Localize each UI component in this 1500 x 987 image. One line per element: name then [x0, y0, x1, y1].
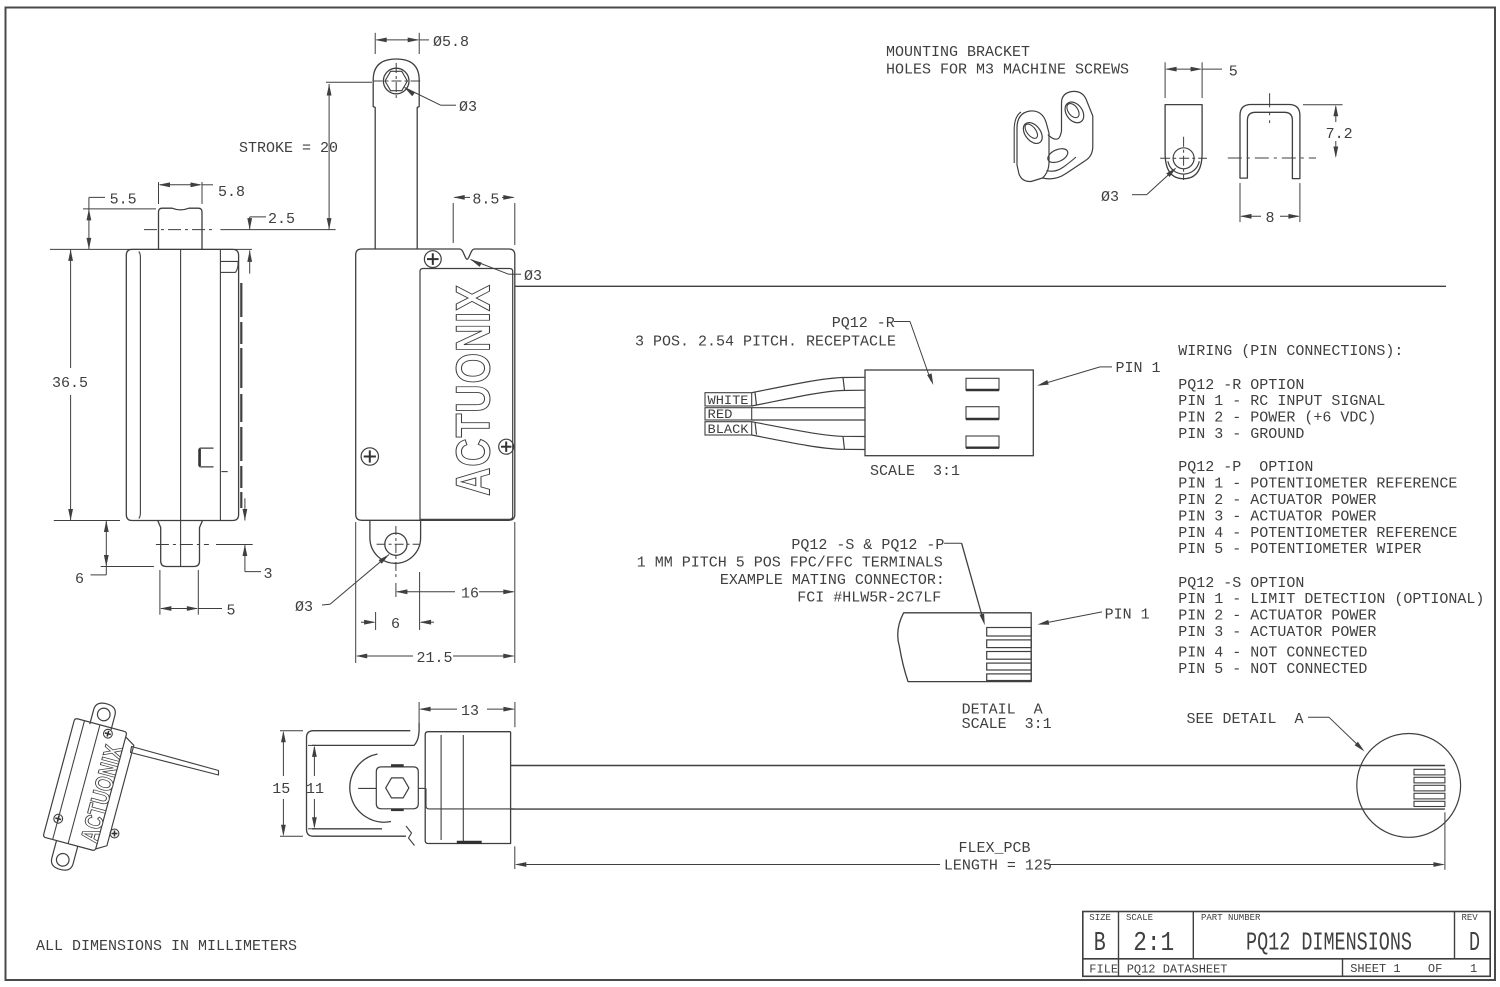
front view: top screw [424, 251, 441, 268]
svg-text:PIN 2 - ACTUATOR POWER: PIN 2 - ACTUATOR POWER [1178, 492, 1376, 509]
front view: bottom tab hole centerlines [377, 543, 420, 545]
connector pin slot 3 [966, 436, 999, 448]
svg-text:HOLES FOR M3 MACHINE SCREWS: HOLES FOR M3 MACHINE SCREWS [886, 62, 1129, 79]
svg-text:STROKE = 20: STROKE = 20 [239, 140, 338, 157]
bracket front view centerlines [1160, 157, 1207, 159]
left side view: side clip feature [199, 448, 214, 467]
front view: right screw [499, 439, 514, 454]
svg-text:36.5: 36.5 [52, 375, 88, 392]
dimension 5 bracket [1164, 62, 1166, 98]
left view body bottom edge extension [54, 520, 120, 522]
front view: bottom mounting tab [370, 520, 421, 563]
svg-text:PQ12 -S OPTION: PQ12 -S OPTION [1178, 575, 1304, 592]
dimension stroke = 20 [326, 81, 372, 83]
front view: right extension line [514, 522, 516, 663]
dimension 36.5 [70, 249, 72, 368]
svg-text:OF: OF [1428, 962, 1442, 976]
svg-text:Ø3: Ø3 [295, 599, 313, 616]
front view: body outline with flex notch [356, 249, 515, 520]
dimension 6 left view [105, 521, 107, 575]
front view: clevis hole hex [385, 71, 407, 90]
title block grid [1083, 912, 1490, 977]
svg-text:PIN 3 - ACTUATOR POWER: PIN 3 - ACTUATOR POWER [1178, 624, 1376, 641]
dimension 3 left view [244, 498, 246, 520]
svg-text:5.8: 5.8 [218, 184, 245, 201]
svg-text:PIN 1 - LIMIT DETECTION (OPTIO: PIN 1 - LIMIT DETECTION (OPTIONAL) [1178, 591, 1484, 608]
bottom view: flex pcb band [511, 765, 1445, 767]
left side view: right seam line [219, 249, 221, 520]
left view body top edge extension [50, 248, 252, 250]
connector pin slot 1 [966, 378, 999, 390]
wire label RED [705, 408, 752, 420]
svg-text:8: 8 [1266, 210, 1275, 227]
svg-text:Ø3: Ø3 [1101, 189, 1119, 206]
left side view: tab centerline ext right [216, 544, 253, 546]
svg-text:BLACK: BLACK [708, 423, 750, 437]
svg-text:6: 6 [391, 616, 400, 633]
dimension 6 front view [375, 612, 377, 630]
bottom view: main block [425, 732, 510, 844]
wire label BLACK [705, 422, 752, 435]
svg-text:1 MM PITCH 5 POS FPC/FFC TERMI: 1 MM PITCH 5 POS FPC/FFC TERMINALS [637, 555, 943, 572]
bottom view: housing recess arc [350, 754, 391, 822]
svg-text:5: 5 [1229, 64, 1238, 81]
svg-text:PQ12 -R OPTION: PQ12 -R OPTION [1178, 377, 1304, 394]
dimension 5.5 extension line (rod tip top) [83, 208, 156, 210]
svg-text:D: D [1469, 929, 1480, 959]
bottom view: clevis square [376, 767, 418, 809]
svg-text:Ø3: Ø3 [524, 268, 542, 285]
svg-text:ALL DIMENSIONS IN MILLIMETERS: ALL DIMENSIONS IN MILLIMETERS [36, 938, 297, 955]
bracket U channel view [1240, 105, 1300, 179]
connector pin slot 2 [966, 407, 999, 419]
svg-text:5: 5 [227, 603, 236, 620]
svg-text:PQ12 -P OPTION: PQ12 -P OPTION [1178, 459, 1313, 476]
front view: clevis hole [383, 68, 409, 94]
dimension diameter-3 front tab leader [379, 555, 389, 564]
svg-text:16: 16 [461, 586, 479, 603]
front view: rod clevis end [373, 59, 419, 107]
left side view: rod tip centerline (dash-dot) [144, 229, 212, 231]
fpc terminal stripes [987, 628, 1031, 637]
svg-text:Ø5.8: Ø5.8 [433, 34, 469, 51]
svg-text:2.5: 2.5 [268, 211, 295, 228]
3D perspective view of actuator [36, 697, 142, 880]
svg-text:6: 6 [75, 571, 84, 588]
bottom view: clevis housing outline [307, 731, 411, 837]
svg-text:PQ12 DATASHEET: PQ12 DATASHEET [1127, 962, 1228, 976]
svg-text:2:1: 2:1 [1133, 929, 1174, 959]
svg-text:EXAMPLE MATING CONNECTOR:: EXAMPLE MATING CONNECTOR: [720, 572, 945, 589]
front view: rod shaft [374, 107, 376, 249]
dimension diameter-3 clevis leader [405, 88, 416, 97]
svg-text:8.5: 8.5 [472, 192, 499, 209]
dimension diameter-5.8 [374, 33, 376, 54]
dimension 5 left view [159, 570, 161, 615]
svg-text:Ø3: Ø3 [459, 99, 477, 116]
left side view: parting line through tab [180, 521, 182, 567]
svg-text:PIN 2 - ACTUATOR POWER: PIN 2 - ACTUATOR POWER [1178, 608, 1376, 625]
front view: left screw [361, 448, 378, 465]
svg-text:FCI #HLW5R-2C7LF: FCI #HLW5R-2C7LF [797, 590, 941, 607]
svg-text:ACTUONIX: ACTUONIX [448, 284, 501, 496]
front view: left extension line [355, 522, 357, 663]
dimension 5.8 left view [158, 182, 160, 204]
svg-text:PIN 1 - RC INPUT SIGNAL: PIN 1 - RC INPUT SIGNAL [1178, 393, 1385, 410]
dimension 16 [395, 583, 397, 597]
wire label WHITE [705, 393, 752, 406]
svg-text:SCALE 3:1: SCALE 3:1 [962, 716, 1052, 733]
svg-text:PIN 4 - NOT CONNECTED: PIN 4 - NOT CONNECTED [1178, 645, 1367, 662]
dimension 8.5 [452, 203, 454, 243]
svg-text:MOUNTING BRACKET: MOUNTING BRACKET [886, 44, 1030, 61]
svg-text:WIRING (PIN CONNECTIONS):: WIRING (PIN CONNECTIONS): [1178, 343, 1403, 360]
front view: flex pcb edge line [516, 285, 1447, 287]
svg-text:PQ12 -S & PQ12 -P: PQ12 -S & PQ12 -P [791, 537, 944, 554]
dimension 15 [280, 730, 303, 732]
svg-text:FLEX_PCB: FLEX_PCB [959, 840, 1031, 857]
left side view: flex pcb edge (dark dashes) [240, 283, 242, 508]
connector body [865, 370, 1033, 456]
dimension 11 [308, 744, 316, 746]
dimension 2.5 [220, 229, 335, 231]
svg-text:WHITE: WHITE [708, 394, 749, 408]
svg-text:SCALE 3:1: SCALE 3:1 [870, 463, 960, 480]
svg-text:3 POS. 2.54 PITCH. RECEPTACLE: 3 POS. 2.54 PITCH. RECEPTACLE [635, 334, 896, 351]
fpc leader [944, 542, 962, 544]
svg-text:11: 11 [306, 781, 324, 798]
left side view: center parting line [180, 249, 182, 520]
svg-text:PQ12 DIMENSIONS: PQ12 DIMENSIONS [1246, 928, 1412, 958]
svg-text:PART NUMBER: PART NUMBER [1201, 913, 1261, 923]
bracket front view outline [1165, 105, 1202, 179]
svg-text:13: 13 [461, 703, 479, 720]
left side view: rod tip [159, 208, 203, 249]
red wire [752, 407, 865, 409]
svg-text:SIZE: SIZE [1089, 913, 1111, 923]
svg-text:PIN 3 - GROUND: PIN 3 - GROUND [1178, 426, 1304, 443]
svg-text:PIN 5 - NOT CONNECTED: PIN 5 - NOT CONNECTED [1178, 661, 1367, 678]
bottom view: clevis slot lines [358, 787, 376, 789]
svg-text:PIN 4 - POTENTIOMETER REFERENC: PIN 4 - POTENTIOMETER REFERENCE [1178, 525, 1457, 542]
left side view: tab centerline (dash-dot) [156, 544, 209, 546]
svg-text:1: 1 [1470, 962, 1477, 976]
dimension length = 125 [514, 846, 516, 869]
svg-text:PIN 1: PIN 1 [1116, 360, 1161, 377]
svg-text:RED: RED [708, 408, 733, 422]
bracket 3D sketch [1017, 111, 1049, 182]
dimension 13 [418, 702, 420, 723]
svg-text:B: B [1094, 929, 1106, 959]
bracket front view hole [1173, 148, 1194, 169]
left side view: actuator body outline [126, 249, 238, 520]
svg-text:21.5: 21.5 [417, 650, 453, 667]
svg-text:LENGTH = 125: LENGTH = 125 [944, 858, 1052, 875]
front view: clevis hole centerlines [373, 80, 421, 82]
left side view: bottom mounting tab [158, 521, 203, 567]
svg-text:PQ12 -R: PQ12 -R [832, 315, 895, 332]
svg-text:PIN 3 - ACTUATOR POWER: PIN 3 - ACTUATOR POWER [1178, 508, 1376, 525]
svg-text:5.5: 5.5 [110, 192, 137, 209]
dimension 7.2 [1303, 104, 1343, 106]
bracket U channel centerlines [1269, 93, 1271, 123]
svg-text:SCALE: SCALE [1126, 913, 1153, 923]
connector PQ12-R leader [894, 321, 910, 323]
svg-text:3: 3 [264, 566, 273, 583]
left side view: top-right flex exit feature [220, 260, 238, 262]
dimension 5.5 [89, 196, 105, 198]
front view: bottom tab hole [385, 533, 407, 555]
detail a circle [1357, 734, 1461, 838]
svg-text:REV: REV [1462, 913, 1479, 923]
bottom view: bottom break zigzag [406, 826, 415, 846]
bottom view: clevis hex socket [386, 778, 409, 798]
svg-text:PIN 1: PIN 1 [1105, 607, 1150, 624]
bottom view: clevis square ticks [391, 764, 404, 767]
fpc flex body [898, 613, 1031, 682]
svg-text:FILE: FILE [1089, 962, 1118, 976]
svg-text:15: 15 [272, 781, 290, 798]
white wire [752, 377, 865, 392]
dimension 8 bracket [1239, 183, 1241, 222]
dimension 21.5 [357, 655, 413, 657]
front view: inner panel [420, 269, 513, 520]
svg-text:PIN 5 - POTENTIOMETER WIPER: PIN 5 - POTENTIOMETER WIPER [1178, 541, 1421, 558]
svg-text:SEE DETAIL A: SEE DETAIL A [1187, 711, 1304, 728]
black wire [752, 422, 865, 437]
flex end terminal stripes [1414, 769, 1445, 775]
svg-text:PIN 1 - POTENTIOMETER REFERENC: PIN 1 - POTENTIOMETER REFERENCE [1178, 476, 1457, 493]
svg-text:SHEET 1: SHEET 1 [1350, 962, 1400, 976]
dimension diameter-3 notch leader [471, 260, 482, 267]
left side view: left seam line [139, 252, 141, 519]
svg-text:7.2: 7.2 [1326, 126, 1353, 143]
svg-text:PIN 2 - POWER (+6 VDC): PIN 2 - POWER (+6 VDC) [1178, 410, 1376, 427]
